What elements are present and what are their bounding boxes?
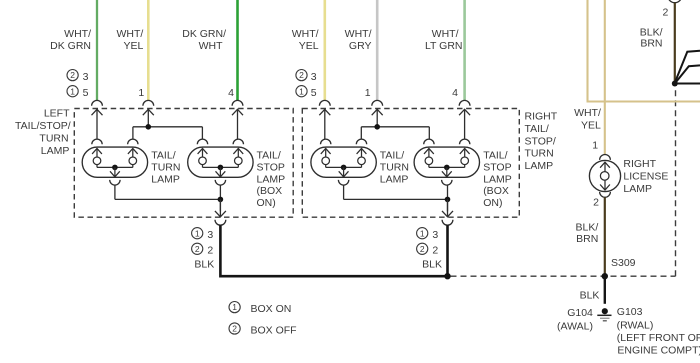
svg-text:TAIL/: TAIL/ <box>257 150 281 162</box>
svg-text:S309: S309 <box>611 257 636 269</box>
splice S309 <box>602 273 608 279</box>
svg-text:WHT/: WHT/ <box>574 107 601 119</box>
junction on pin1 branch (right box) <box>374 124 380 130</box>
svg-text:3: 3 <box>207 229 213 241</box>
svg-text:BLK: BLK <box>194 258 214 270</box>
svg-text:GRY: GRY <box>349 40 372 52</box>
svg-text:2: 2 <box>195 244 200 254</box>
svg-text:STOP: STOP <box>257 161 285 173</box>
svg-text:BLK: BLK <box>422 258 442 270</box>
label WHT/YEL license feed <box>574 107 601 131</box>
svg-text:TAIL/STOP/: TAIL/STOP/ <box>15 120 71 132</box>
svg-text:WHT/: WHT/ <box>345 28 372 40</box>
wire WHT/YEL (right lamp pin 5 feed) <box>323 0 326 101</box>
pin 3/2 selector left box exit <box>192 228 214 241</box>
wire lamp returns to left box exit <box>115 185 220 211</box>
svg-text:3: 3 <box>311 71 317 83</box>
label WHT/GRY <box>345 28 372 52</box>
svg-text:LT GRN: LT GRN <box>425 40 463 52</box>
svg-text:BRN: BRN <box>576 233 598 245</box>
svg-text:5: 5 <box>311 87 317 99</box>
lamp TAIL/TURN LAMP L3 (right box) <box>311 139 376 185</box>
svg-text:3: 3 <box>432 229 438 241</box>
wire WHT/YEL vertical feed (top right) <box>586 0 588 101</box>
svg-text:BOX OFF: BOX OFF <box>251 324 297 336</box>
svg-text:LEFT: LEFT <box>44 108 70 120</box>
svg-text:WHT/: WHT/ <box>116 28 143 40</box>
svg-text:1: 1 <box>138 87 144 99</box>
svg-text:ON): ON) <box>257 197 276 209</box>
svg-text:2: 2 <box>232 324 237 334</box>
svg-text:STOP: STOP <box>483 161 511 173</box>
junction on pin1 branch (left box) <box>146 124 152 130</box>
svg-text:4: 4 <box>452 87 458 99</box>
svg-text:RIGHT: RIGHT <box>623 158 656 170</box>
svg-text:1: 1 <box>365 87 371 99</box>
svg-text:1: 1 <box>70 86 75 96</box>
svg-text:YEL: YEL <box>123 40 143 52</box>
component box RIGHT TAIL/STOP/TURN LAMP <box>302 109 519 218</box>
connector left box pin 1 (arc and arrow) <box>143 100 154 115</box>
connector right box ground pin (arrow and arc) <box>442 199 453 225</box>
svg-text:2: 2 <box>207 245 213 257</box>
label BLK/BRN license <box>576 222 599 245</box>
wire BLK right box to splice run <box>446 225 449 276</box>
connector right box pin 5 (arc and arrow) <box>319 100 330 115</box>
svg-text:(BOX: (BOX <box>483 185 509 197</box>
label G104 (AWAL) <box>557 307 593 333</box>
wire WHT/YEL (left lamp pin 1 feed) <box>147 0 150 101</box>
svg-text:LAMP: LAMP <box>525 160 554 172</box>
pin 3/2 selector right box exit <box>417 228 439 241</box>
svg-text:DK GRN/: DK GRN/ <box>182 28 226 40</box>
wire pin4 to left tail/stop filament (left box) <box>237 109 239 139</box>
splice fan wires to off-page lamps <box>676 51 700 84</box>
legend BOX ON <box>229 302 291 315</box>
svg-text:G104: G104 <box>567 307 593 319</box>
svg-text:1: 1 <box>232 302 237 312</box>
svg-text:WHT: WHT <box>199 40 223 52</box>
dashed off-page BLK run to S309 <box>451 89 676 277</box>
svg-text:5: 5 <box>83 87 89 99</box>
svg-text:4: 4 <box>228 87 234 99</box>
svg-text:LICENSE: LICENSE <box>623 170 668 182</box>
svg-text:2: 2 <box>593 196 599 208</box>
svg-text:2: 2 <box>432 245 438 257</box>
connector right box pin 4 (arc and arrow) <box>459 100 470 115</box>
junction right box return <box>445 197 451 203</box>
svg-text:2: 2 <box>70 70 75 80</box>
svg-text:TURN: TURN <box>151 161 180 173</box>
wire WHT/LT GRN (right lamp pin 4 feed) <box>463 0 466 101</box>
lamp RIGHT LICENSE LAMP <box>589 154 620 197</box>
label RIGHT TAIL/STOP/TURN LAMP <box>525 111 558 173</box>
lamp circle top right (cut off) <box>668 0 682 3</box>
lamp TAIL/STOP LAMP L2 (left box) <box>188 139 253 185</box>
svg-text:TURN: TURN <box>39 133 68 145</box>
svg-text:1: 1 <box>195 228 200 238</box>
svg-text:(RWAL): (RWAL) <box>617 320 654 332</box>
label DK GRN/WHT <box>182 28 226 52</box>
svg-text:WHT/: WHT/ <box>64 28 91 40</box>
svg-text:ENGINE COMPT): ENGINE COMPT) <box>617 344 700 356</box>
svg-text:ON): ON) <box>483 197 502 209</box>
lamp TAIL/TURN LAMP L1 (left box) <box>82 139 147 185</box>
label WHT/YEL <box>116 28 143 52</box>
lamp TAIL/STOP LAMP L4 (right box) <box>414 139 479 185</box>
label WHT/YEL (right box) <box>292 28 319 52</box>
wire pin4 to right tail/stop filament (right box) <box>464 109 466 139</box>
wire BLK S309 to ground <box>604 277 606 304</box>
wire pin5 to right tail/turn filament (right box) <box>324 109 326 139</box>
svg-text:YEL: YEL <box>581 120 601 132</box>
svg-text:1: 1 <box>592 139 598 151</box>
label TAIL/TURN LAMP (right box) <box>380 150 409 186</box>
wire DK GRN/WHT (left lamp pin 4 feed) <box>236 0 239 101</box>
ground G104 <box>597 308 611 321</box>
svg-text:TAIL/: TAIL/ <box>380 150 404 162</box>
svg-text:3: 3 <box>83 71 89 83</box>
label G103 (RWAL) (LEFT FRONT OF ENGINE COMPT) <box>617 306 700 356</box>
svg-text:LAMP: LAMP <box>41 145 70 157</box>
svg-text:TURN: TURN <box>380 161 409 173</box>
svg-text:(LEFT FRONT OF: (LEFT FRONT OF <box>617 332 700 344</box>
label TAIL/STOP LAMP BOX ON (right box) <box>483 150 512 210</box>
svg-text:STOP/: STOP/ <box>525 135 556 147</box>
wire WHT/YEL horizontal to right edge <box>587 100 700 102</box>
svg-text:2: 2 <box>662 6 668 18</box>
svg-text:LAMP: LAMP <box>257 173 286 185</box>
wire lamp returns to right box exit <box>344 185 448 211</box>
svg-text:TAIL/: TAIL/ <box>483 150 507 162</box>
wire pin1 branch (left box) <box>133 109 203 139</box>
wire pin1 branch (right box) <box>361 109 429 139</box>
label TAIL/STOP LAMP BOX ON (left box) <box>257 150 286 210</box>
splice junction top right <box>672 81 678 87</box>
svg-text:1: 1 <box>299 86 304 96</box>
wire BLK left box to splice run <box>220 225 447 276</box>
svg-text:WHT/: WHT/ <box>292 28 319 40</box>
svg-text:BLK: BLK <box>580 290 600 302</box>
pin 3/5 selector left box <box>67 70 89 83</box>
label RIGHT LICENSE LAMP <box>623 158 668 195</box>
junction BLK wires <box>444 273 450 279</box>
svg-text:G103: G103 <box>617 306 643 318</box>
svg-text:RIGHT: RIGHT <box>525 111 558 123</box>
connector left box ground pin (arrow and arc) <box>215 199 226 225</box>
wire WHT/GRY (right lamp pin 1 feed) <box>376 0 379 101</box>
svg-text:TAIL/: TAIL/ <box>525 123 549 135</box>
svg-text:1: 1 <box>420 228 425 238</box>
wire WHT/YEL to license lamp <box>604 0 606 155</box>
wire WHT/DK GRN (left lamp pin 5 feed) <box>96 0 98 101</box>
svg-text:YEL: YEL <box>299 40 319 52</box>
legend BOX OFF <box>229 323 297 336</box>
svg-text:TAIL/: TAIL/ <box>151 150 175 162</box>
pin 3/5 selector right box <box>296 70 317 83</box>
svg-text:2: 2 <box>299 70 304 80</box>
svg-text:LAMP: LAMP <box>483 173 512 185</box>
svg-text:(AWAL): (AWAL) <box>557 321 593 333</box>
label BLK/BRN top right <box>640 27 663 50</box>
svg-text:BRN: BRN <box>640 37 662 49</box>
connector right box pin 1 (arc and arrow) <box>372 100 383 115</box>
svg-text:2: 2 <box>420 244 425 254</box>
svg-text:BOX ON: BOX ON <box>251 303 292 315</box>
label LEFT TAIL/STOP/TURN LAMP <box>15 108 71 158</box>
label TAIL/TURN LAMP (left box) <box>151 150 180 186</box>
wire pin5 to left tail/turn filament (left box) <box>96 109 98 139</box>
wire BLK/BRN top right <box>674 3 676 82</box>
svg-text:LAMP: LAMP <box>151 173 180 185</box>
svg-text:WHT/: WHT/ <box>432 28 459 40</box>
label WHT/LT GRN <box>425 28 463 52</box>
svg-text:(BOX: (BOX <box>257 185 283 197</box>
component box LEFT TAIL/STOP/TURN LAMP <box>74 109 293 218</box>
svg-text:LAMP: LAMP <box>380 173 409 185</box>
connector left box pin 5 (arc and arrow) <box>92 100 103 115</box>
svg-text:TURN: TURN <box>525 148 554 160</box>
junction left box return <box>218 197 224 203</box>
wire BLK/BRN license lamp to S309 <box>604 197 606 275</box>
connector left box pin 4 (arc and arrow) <box>232 100 243 115</box>
svg-text:LAMP: LAMP <box>623 183 652 195</box>
label WHT/DK GRN <box>50 28 91 52</box>
svg-text:DK GRN: DK GRN <box>50 40 91 52</box>
